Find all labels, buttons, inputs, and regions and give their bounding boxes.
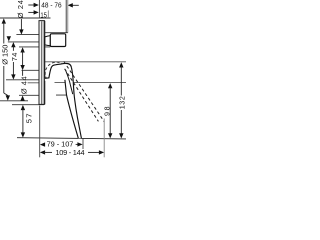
lever dashed (alternate position) [64,61,105,121]
grey extension line from dashed lever tip [103,119,105,158]
technical dimension drawing: concealed single-lever bath mixer, side section view [0,0,126,160]
svg-text:74: 74 [10,52,19,61]
lever hub outline [45,63,72,78]
dim 15 [28,10,48,19]
small arrow at 74-top line left end [7,36,11,41]
extension line knob bottom [19,46,50,48]
handle knob (side view) [45,34,66,47]
dim 79-107 [40,140,83,149]
dashed circle (concealed cartridge Ø44) [45,62,67,84]
vertical extension plate front (top) [38,0,40,18]
extension line plate bottom [12,104,44,106]
dim 109-144 [40,148,104,157]
label Ø24 (top left, rotated) with leader stem [16,0,25,35]
extension line plate top [0,17,51,19]
extension line Ø150 bottom [0,100,28,102]
dimension 74 [10,42,19,80]
svg-text:Ø 44: Ø 44 [19,76,28,94]
svg-text:79 - 107: 79 - 107 [47,140,74,149]
extension line lever kink left [19,94,39,96]
lever inner edge [65,80,78,138]
extension line Ø44 bottom [22,69,40,71]
dim 48-76 left arrow + text [28,2,61,9]
extension line 74-top [8,41,39,43]
svg-text:109 - 144: 109 - 144 [55,148,84,157]
right extension line lever kink [56,94,66,96]
svg-text:57: 57 [25,112,34,123]
bottom reference line (lever tip level) [17,138,126,139]
svg-text:98: 98 [102,105,111,116]
lever tip tick [82,139,84,149]
dimension 132 [118,62,127,138]
svg-text:15: 15 [40,12,47,20]
box bottom edge [45,32,68,34]
dimension 98 [102,83,112,138]
extension line 74-bottom [6,79,39,81]
lever hub + lever (solid, white fill over dashed circle) [45,63,82,138]
dim 48-76 right arrow [68,3,79,7]
dimension Ø150 [0,18,10,100]
right extension line hub top (132-dim) [45,61,126,63]
svg-text:Ø 150: Ø 150 [0,45,9,65]
left vertical extension (plate front, bottom) [39,106,41,158]
escutcheon plate (side profile) [39,21,45,105]
lever interior edge [65,70,72,95]
dimension Ø44 [19,47,28,100]
svg-text:132: 132 [118,96,126,110]
lever outer edge [71,67,81,138]
svg-text:48 - 76: 48 - 76 [41,2,61,9]
extension line knob top [16,34,44,36]
concealed box rear edges [65,0,67,33]
svg-text:Ø 24: Ø 24 [16,0,25,18]
extension line pivot left [28,82,45,84]
dimension 57 [21,105,34,138]
right extension line pivot (98-dim) [55,82,127,84]
